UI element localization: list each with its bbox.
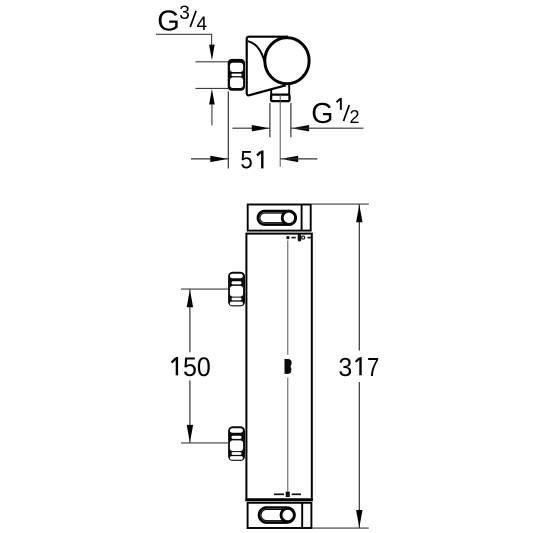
dimension 51 left arrow bbox=[191, 158, 228, 160]
trumpet curve bbox=[248, 41, 265, 65]
svg-text:4: 4 bbox=[197, 14, 208, 35]
small nut G1/2 bbox=[271, 95, 289, 102]
svg-text:2: 2 bbox=[350, 107, 360, 127]
svg-text:50: 50 bbox=[183, 352, 211, 382]
svg-text:G: G bbox=[311, 98, 333, 130]
bottom symbol row bbox=[274, 492, 301, 497]
extension lines below small nut bbox=[269, 103, 271, 137]
150 extension line bottom bbox=[181, 442, 228, 444]
G1/2 dimension line left tail + arrow bbox=[233, 127, 270, 129]
svg-text:7: 7 bbox=[367, 352, 379, 382]
upper inlet nut bbox=[228, 272, 245, 307]
extension line top right (317) bbox=[312, 203, 369, 205]
centerline of outlet pipe bbox=[279, 95, 281, 167]
union nut G3/4 bbox=[228, 59, 245, 91]
top handle bbox=[248, 205, 311, 231]
150 extension line top bbox=[181, 288, 228, 290]
317 dimension line + arrows bbox=[358, 205, 360, 351]
G1/2 dimension right arrow + tail bbox=[291, 125, 309, 131]
arrow up to nut bottom bbox=[209, 89, 215, 105]
svg-text:G: G bbox=[157, 6, 180, 38]
svg-text:5: 5 bbox=[240, 146, 252, 174]
svg-text:3: 3 bbox=[338, 352, 352, 382]
150 dimension line + arrows bbox=[189, 290, 191, 353]
thermostat body rect bbox=[246, 234, 311, 500]
arrow down to nut top bbox=[209, 45, 215, 61]
pipe stub walls between circle and small nut bbox=[270, 90, 272, 96]
svg-text:3: 3 bbox=[179, 3, 190, 24]
label G 1/2 bbox=[311, 98, 359, 130]
body centerline lower part bbox=[287, 378, 289, 492]
round body circle bbox=[265, 38, 309, 84]
body bottom thick edge bbox=[245, 498, 313, 501]
leader line for G 3/4 bbox=[156, 34, 212, 45]
extension line nut bottom bbox=[196, 87, 229, 89]
lower inlet nut bbox=[228, 426, 245, 461]
label G 3/4 bbox=[157, 3, 207, 38]
dimension 51 right arrow bbox=[280, 156, 298, 162]
bottom handle bbox=[248, 503, 312, 528]
middle blob bbox=[285, 359, 292, 374]
body centerline upper part bbox=[287, 240, 289, 354]
extension line bottom right (317) bbox=[312, 527, 368, 529]
top symbol row: dot, dashes, knob, circle bbox=[286, 234, 311, 241]
text 150 bbox=[176, 357, 178, 375]
extension line for 51 (wall face) bbox=[227, 92, 229, 169]
extension line nut top bbox=[196, 61, 229, 63]
escutcheon body bbox=[247, 37, 288, 96]
